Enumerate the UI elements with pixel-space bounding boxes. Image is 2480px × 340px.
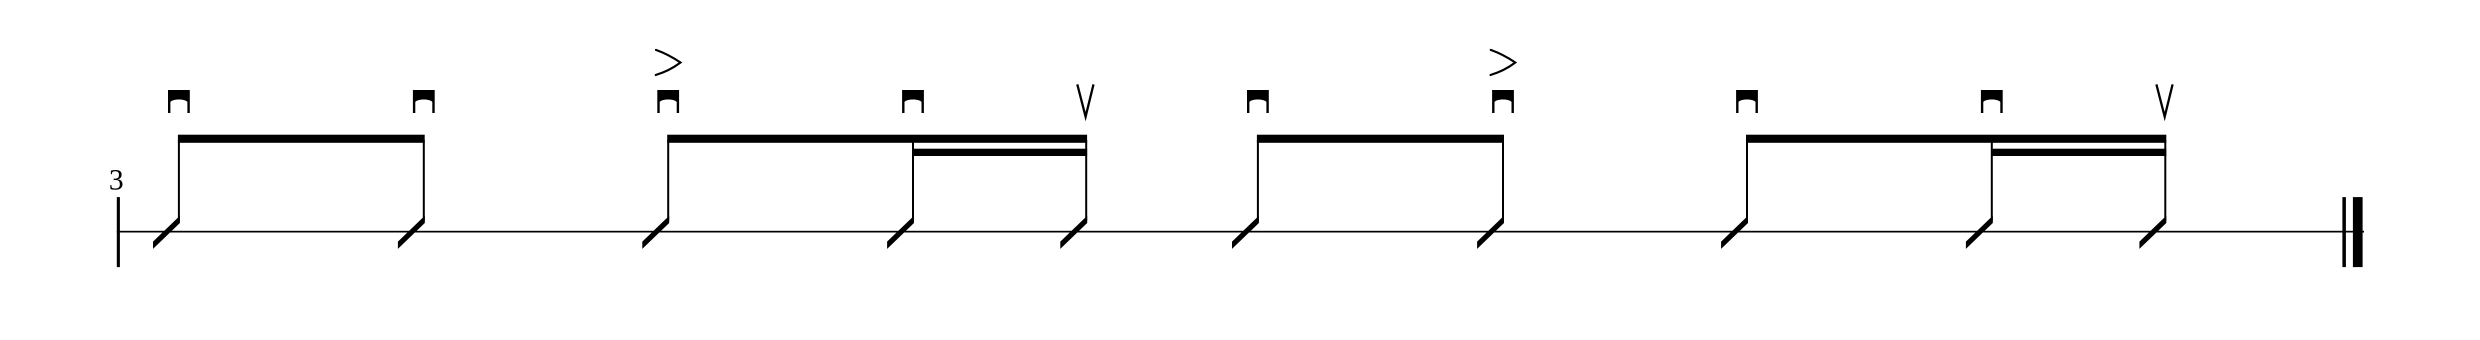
svg-text:3: 3 [109, 164, 124, 196]
